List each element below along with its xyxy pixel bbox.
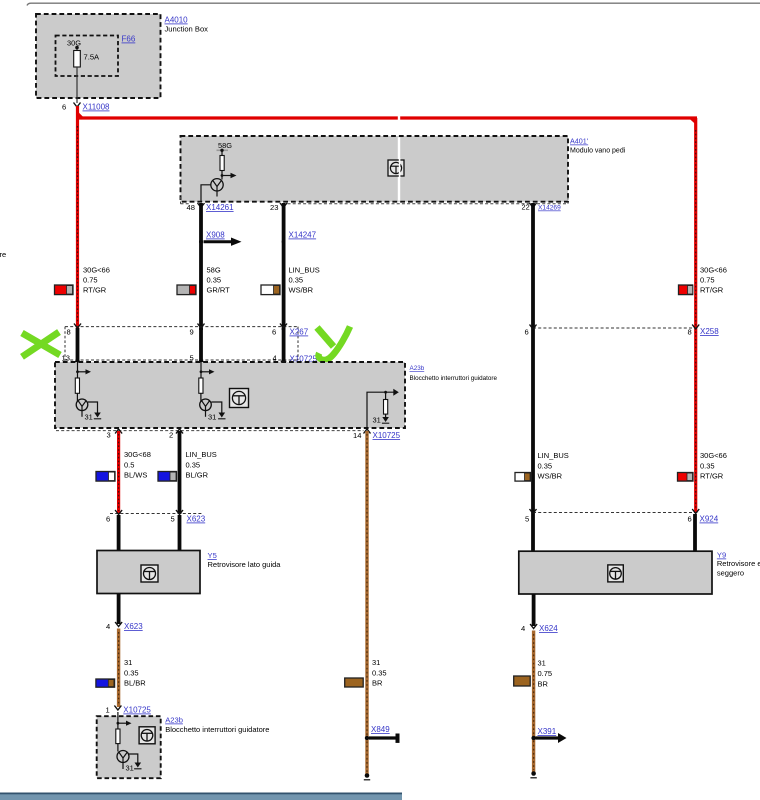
memory branch wire to pin 14 — [367, 389, 399, 428]
svg-text:X623: X623 — [124, 622, 143, 631]
svg-text:A4010: A4010 — [165, 16, 189, 25]
switch block A23b lower — [97, 716, 161, 778]
junction arrow in module — [221, 173, 237, 178]
svg-text:seggero: seggero — [717, 569, 744, 578]
svg-text:X391: X391 — [538, 727, 557, 736]
wire 58G column black — [199, 203, 203, 330]
fuse carrier F66 box — [56, 35, 136, 77]
stage 1 branch arrow — [76, 362, 91, 378]
svg-text:31: 31 — [124, 658, 132, 667]
wire pin2 black LIN — [178, 431, 182, 514]
svg-text:WS/BR: WS/BR — [538, 472, 563, 481]
svg-text:2: 2 — [169, 431, 173, 440]
wire brown BR right — [532, 631, 535, 774]
resistor in module — [220, 156, 224, 176]
svg-text:6: 6 — [688, 515, 692, 524]
top border rule — [27, 3, 760, 5]
module box A401 Modulo vano pedi — [181, 112, 569, 202]
svg-text:8: 8 — [67, 328, 71, 337]
svg-text:31: 31 — [126, 764, 134, 773]
connector row X924 — [533, 513, 719, 524]
swatch RT/GR right — [679, 285, 693, 295]
svg-text:30G<66: 30G<66 — [700, 266, 727, 275]
wire output stage to pin 48 — [201, 185, 211, 202]
connector row X623 — [110, 514, 206, 524]
mirror icon in Y5 — [141, 565, 158, 582]
pin 2 A23b — [169, 429, 183, 440]
memory resistor — [384, 392, 388, 414]
mirror icon in A23b — [230, 389, 249, 408]
svg-text:4: 4 — [521, 624, 525, 633]
svg-text:58G: 58G — [218, 141, 232, 150]
terminal end right — [530, 771, 536, 778]
label wire 58G GR/RT — [207, 266, 231, 295]
svg-text:0.75: 0.75 — [83, 276, 98, 285]
svg-text:Modulo vano pedi: Modulo vano pedi — [570, 148, 626, 155]
pin 14 A23b X10725 — [353, 429, 401, 440]
A23b pin strip dashed line — [56, 430, 364, 432]
svg-text:X11008: X11008 — [83, 103, 111, 112]
label wire 31 BL/BR — [124, 658, 146, 688]
svg-text:3: 3 — [107, 431, 111, 440]
pin 8 X267 — [67, 324, 82, 337]
wire pass-through col3 in row — [282, 328, 286, 362]
svg-text:Blocchetto interruttori guidat: Blocchetto interruttori guidatore — [165, 725, 269, 734]
label wire LIN_BUS WS/BR right — [538, 451, 569, 481]
svg-text:X14269: X14269 — [538, 205, 561, 212]
svg-text:Retrovisore lato guida: Retrovisore lato guida — [208, 560, 282, 569]
label A4010 Junction Box — [165, 16, 209, 34]
stage 2 ground 31 — [208, 402, 226, 422]
svg-text:0.75: 0.75 — [538, 669, 553, 678]
svg-text:X10725: X10725 — [373, 431, 401, 440]
pin 3 A23b — [107, 429, 123, 440]
svg-text:30G<66: 30G<66 — [83, 266, 110, 275]
svg-text:X14247: X14247 — [289, 231, 317, 240]
clipped text left margin — [0, 250, 6, 259]
connector X10725 pin 1 — [106, 706, 152, 715]
wire brown BL/BR — [117, 629, 120, 708]
svg-text:6: 6 — [62, 103, 66, 112]
swatch BL/GR — [158, 472, 177, 482]
label wire 30G RT/GR left — [83, 266, 110, 295]
svg-text:F66: F66 — [122, 35, 136, 44]
svg-text:6: 6 — [106, 515, 110, 524]
connector row X267 / X10725 — [65, 327, 318, 364]
swatch RT/GR left — [55, 285, 74, 295]
pin 5 X924 — [525, 509, 537, 524]
swatch BR middle — [345, 678, 364, 687]
wire right column black pin22 — [531, 203, 535, 514]
svg-text:BL/GR: BL/GR — [186, 471, 209, 480]
svg-text:0.35: 0.35 — [124, 669, 139, 678]
splice X14247 — [282, 231, 317, 244]
node 58G tap in module — [217, 141, 233, 156]
svg-text:30G<68: 30G<68 — [124, 450, 151, 459]
svg-text:WS/BR: WS/BR — [289, 286, 314, 295]
svg-text:Junction Box: Junction Box — [165, 25, 209, 34]
svg-text:RT/GR: RT/GR — [700, 472, 724, 481]
svg-text:4: 4 — [106, 622, 110, 631]
svg-text:X623: X623 — [187, 515, 206, 524]
svg-text:30G<66: 30G<66 — [700, 451, 727, 460]
svg-text:7.5A: 7.5A — [84, 53, 101, 62]
svg-text:Y5: Y5 — [208, 551, 217, 560]
wire pin3 red BL/WS — [117, 431, 120, 514]
svg-text:BR: BR — [538, 680, 549, 689]
swatch BL/BR — [96, 679, 115, 687]
pin 6 X258 — [525, 325, 537, 337]
swatch WS/BR right — [515, 473, 531, 482]
module pin 48 X14261 — [187, 203, 235, 212]
svg-text:0.35: 0.35 — [538, 462, 553, 471]
label wire 31 BR right — [538, 659, 553, 689]
wire X924 to Y9 left — [531, 514, 535, 552]
lower ground 31 — [126, 754, 142, 773]
splice X908 with arrow — [199, 231, 242, 246]
junction box A4010 — [36, 14, 161, 98]
swatch WS/BR — [261, 285, 280, 295]
svg-text:0.35: 0.35 — [289, 276, 304, 285]
swatch BR right — [514, 676, 531, 686]
svg-text:23: 23 — [270, 203, 278, 212]
splice X391 with arrow — [531, 727, 566, 743]
svg-text:BL/BR: BL/BR — [124, 679, 146, 688]
svg-text:A23b: A23b — [410, 365, 425, 372]
svg-text:Blocchetto interruttori guidat: Blocchetto interruttori guidatore — [410, 375, 498, 382]
switch block A23b — [55, 362, 405, 428]
svg-text:30G: 30G — [67, 39, 81, 48]
svg-text:re: re — [0, 250, 6, 259]
svg-text:X849: X849 — [371, 725, 390, 734]
pin 8 X258 — [688, 325, 700, 337]
svg-text:Retrovisore este: Retrovisore este — [717, 559, 760, 568]
module pin 22 X14269 — [522, 203, 562, 212]
svg-text:48: 48 — [187, 203, 195, 212]
svg-text:X624: X624 — [539, 624, 558, 633]
svg-text:0.5: 0.5 — [124, 461, 134, 470]
label Y9 Retrovisore esterno passeggero — [717, 551, 760, 578]
label wire LIN_BUS WS/BR — [289, 266, 320, 295]
svg-text:0.75: 0.75 — [700, 276, 715, 285]
pin 6 X267 — [272, 324, 287, 337]
pin 5 X10725 — [190, 354, 205, 364]
memory ground 31 — [373, 414, 390, 424]
svg-text:X10725: X10725 — [123, 706, 151, 715]
svg-text:31: 31 — [538, 659, 546, 668]
taskbar fragment bottom — [0, 793, 402, 800]
lower stage branch arrow — [117, 712, 132, 729]
svg-text:LIN_BUS: LIN_BUS — [186, 450, 217, 459]
module pin strip dashed line — [181, 197, 569, 204]
fuse F66 7.5A — [74, 48, 100, 68]
label wire 31 BR middle — [372, 658, 387, 688]
mirror icon in module — [388, 158, 404, 178]
wire pass-through col1 in row — [76, 328, 80, 362]
mirror icon in Y9 — [608, 565, 624, 582]
connector X624 pin 4 — [521, 624, 558, 633]
label wire LIN_BUS BL/GR — [186, 450, 217, 480]
wire pin14 brown 31 — [365, 431, 368, 775]
svg-text:31: 31 — [373, 416, 381, 425]
svg-text:5: 5 — [525, 515, 529, 524]
label Y5 Retrovisore lato guida — [208, 551, 282, 569]
svg-text:X924: X924 — [700, 515, 719, 524]
svg-text:A23b: A23b — [165, 716, 183, 725]
svg-text:X908: X908 — [206, 231, 225, 240]
wire red supply right vertical — [694, 118, 697, 513]
connector X623 pin 4 — [106, 622, 143, 631]
svg-text:0.35: 0.35 — [186, 461, 201, 470]
svg-text:GR/RT: GR/RT — [207, 286, 231, 295]
svg-text:X258: X258 — [700, 327, 719, 336]
svg-text:BR: BR — [372, 679, 383, 688]
swatch RT/GR lower right — [678, 473, 694, 482]
label A401 Modulo vano pedi — [570, 137, 626, 155]
mirror unit Y5 — [97, 551, 200, 594]
pin 5 X623 — [171, 510, 184, 524]
svg-text:0.35: 0.35 — [207, 276, 222, 285]
stage 1 ground 31 — [85, 402, 102, 422]
swatch BL/WS — [96, 472, 115, 482]
svg-text:1: 1 — [106, 706, 110, 715]
pin 6 X924 — [688, 509, 700, 524]
pin 6 X623 — [106, 510, 122, 524]
stage 1 resistor — [75, 378, 79, 401]
wire X623 to Y5 left — [117, 515, 121, 551]
output stage U1 in module — [211, 176, 223, 197]
pin 13 X10725 — [62, 354, 82, 364]
node 30G — [67, 39, 81, 50]
svg-text:LIN_BUS: LIN_BUS — [289, 266, 320, 275]
annotation green x — [22, 332, 60, 357]
lower output stage — [117, 751, 129, 770]
svg-text:14: 14 — [353, 431, 361, 440]
wire X623 to Y5 right — [178, 515, 182, 551]
svg-text:31: 31 — [208, 413, 216, 422]
svg-text:58G: 58G — [207, 266, 221, 275]
svg-text:31: 31 — [85, 413, 93, 422]
svg-text:RT/GR: RT/GR — [83, 286, 107, 295]
pin 4 X10725 — [273, 354, 288, 364]
svg-text:LIN_BUS: LIN_BUS — [538, 451, 569, 460]
connector row X258 — [533, 327, 719, 336]
mirror unit Y9 — [519, 551, 712, 594]
svg-text:X14261: X14261 — [206, 203, 234, 212]
label wire 30G BL/WS — [124, 450, 151, 480]
label A23b Blocchetto interruttori guidatore — [410, 365, 498, 382]
mirror icon in A23b lower — [139, 727, 155, 744]
svg-text:0.35: 0.35 — [700, 462, 715, 471]
svg-text:5: 5 — [171, 515, 175, 524]
svg-text:A401': A401' — [570, 137, 589, 146]
swatch GR/RT — [177, 285, 196, 295]
stage 2 output stage — [200, 399, 212, 417]
svg-text:0.35: 0.35 — [372, 669, 387, 678]
annotation green y — [317, 327, 350, 361]
label wire 30G RT/GR right — [700, 266, 727, 295]
svg-text:X267: X267 — [290, 328, 309, 337]
wire Y5 down black — [117, 594, 121, 625]
svg-text:8: 8 — [688, 328, 692, 337]
terminal end middle — [364, 773, 370, 780]
wire pass-through col2 in row — [199, 328, 203, 362]
wire fuse to X11008 — [76, 67, 78, 103]
wire LIN column black — [282, 203, 286, 330]
label wire 30G RT/GR lower right — [700, 451, 727, 481]
wire red supply horizontal run — [76, 114, 697, 123]
pin 9 X267 — [190, 324, 205, 337]
svg-text:9: 9 — [190, 328, 194, 337]
stage 1 output stage — [76, 399, 88, 417]
svg-text:31: 31 — [372, 658, 380, 667]
wire X924 to Y9 right — [693, 514, 697, 552]
svg-text:6: 6 — [272, 328, 276, 337]
module pin 23 — [270, 203, 287, 212]
connector X11008 pin 6 — [62, 103, 110, 112]
wire Y9 down black — [532, 594, 536, 626]
label A23b lower — [165, 716, 269, 735]
stage 2 resistor — [199, 378, 203, 401]
splice X849 with arrow — [365, 725, 400, 743]
svg-text:22: 22 — [522, 203, 530, 212]
svg-text:RT/GR: RT/GR — [700, 286, 724, 295]
lower stage resistor — [116, 729, 120, 752]
svg-text:6: 6 — [525, 328, 529, 337]
wire red supply vertical from X11008 — [76, 106, 79, 328]
svg-text:BL/WS: BL/WS — [124, 471, 147, 480]
stage 2 branch arrow — [200, 362, 215, 378]
